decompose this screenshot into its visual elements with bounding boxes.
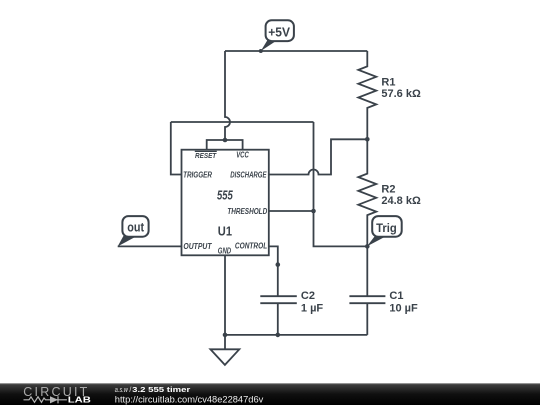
svg-text:57.6 kΩ: 57.6 kΩ	[381, 88, 421, 100]
svg-text:TRIGGER: TRIGGER	[183, 170, 212, 179]
svg-text:C2: C2	[301, 290, 315, 302]
wire threshold column	[314, 122, 368, 246]
svg-text:DISCHARGE: DISCHARGE	[230, 170, 267, 179]
svg-text:THRESHOLD: THRESHOLD	[227, 207, 267, 216]
wire top +5V rail	[225, 50, 367, 52]
junction dots	[223, 49, 370, 337]
ground symbol	[210, 349, 239, 365]
logo resistor-diode glyph	[24, 396, 67, 403]
footer bar	[0, 383, 540, 405]
flag out	[118, 216, 149, 246]
svg-text:LAB: LAB	[68, 396, 92, 405]
node +5V attach	[259, 49, 263, 53]
IC pin labels	[183, 151, 267, 256]
svg-text:R2: R2	[381, 183, 395, 195]
svg-text:CONTROL: CONTROL	[235, 242, 267, 251]
capacitor C1 leads and plates	[349, 246, 385, 335]
node control	[276, 262, 281, 267]
svg-text:GND: GND	[218, 247, 231, 256]
node R1 bottom	[365, 137, 370, 142]
svg-text:10 µF: 10 µF	[389, 302, 418, 314]
svg-text:out: out	[127, 220, 144, 235]
node reset junction	[223, 138, 228, 143]
svg-text:RESET: RESET	[195, 151, 217, 160]
svg-text:/: /	[129, 387, 131, 394]
svg-text:C1: C1	[389, 290, 403, 302]
wire discharge with hop	[269, 139, 368, 174]
resistor R2	[358, 139, 376, 246]
component value labels	[301, 76, 421, 314]
wire control pin to C2	[269, 246, 278, 296]
svg-text:OUTPUT: OUTPUT	[183, 242, 212, 251]
svg-text:R1: R1	[381, 76, 395, 88]
node Trig	[365, 244, 370, 249]
wire bottom ground rail	[225, 334, 367, 336]
flag Trig	[367, 216, 402, 246]
wire left vertical with hop over horizontal	[225, 51, 230, 140]
svg-text:555: 555	[217, 187, 233, 202]
wire threshold pin	[269, 210, 314, 212]
node threshold	[311, 209, 316, 214]
capacitor C2 plates and lead	[260, 296, 297, 335]
wire trigger drop to TRIGGER pin	[171, 122, 182, 175]
svg-text:http://circuitlab.com/cv48e228: http://circuitlab.com/cv48e22847d6v	[115, 394, 264, 404]
node C2 bottom	[276, 333, 281, 338]
resistor R1	[358, 51, 376, 139]
svg-text:Trig: Trig	[376, 221, 397, 235]
svg-text:VCC: VCC	[236, 151, 249, 160]
svg-text:3.2 555 timer: 3.2 555 timer	[132, 386, 190, 394]
wire horizontal trigger rail	[171, 121, 314, 123]
svg-text:U1: U1	[218, 225, 232, 239]
wire GND stem	[224, 255, 226, 349]
flag +5V	[261, 20, 294, 51]
node gnd rail	[223, 333, 228, 338]
wire output pin	[118, 245, 182, 247]
svg-text:+5V: +5V	[268, 25, 290, 40]
IC U1 555 timer body	[182, 150, 269, 256]
svg-text:1 µF: 1 µF	[301, 302, 324, 314]
wire RESET/VCC bracket	[207, 140, 243, 150]
svg-text:24.8 kΩ: 24.8 kΩ	[381, 195, 421, 207]
svg-text:a.s.w: a.s.w	[115, 387, 129, 394]
